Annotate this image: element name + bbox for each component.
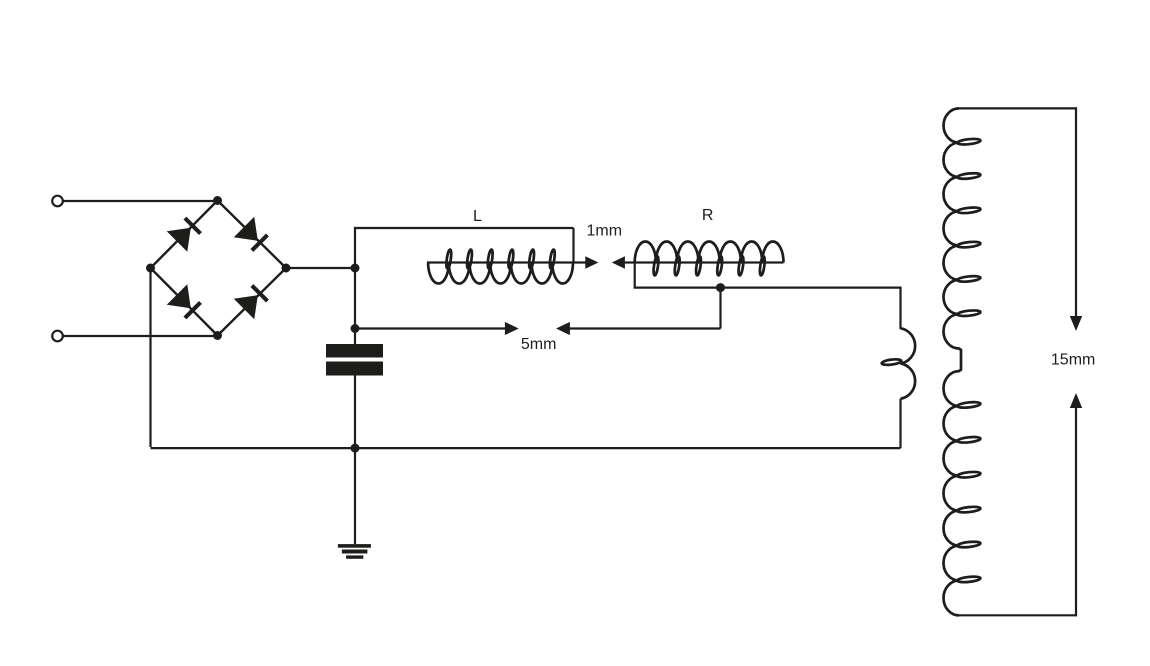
inductor R crossing loops: [653, 256, 766, 276]
wire from J2 to bridge bottom node: [63, 335, 217, 337]
arrow left (5mm gap right side): [556, 322, 570, 335]
wire R lower rail to primary coil: [634, 287, 901, 289]
dimension line down arrow (15mm upper): [1070, 107, 1082, 331]
wire bridge right node to main vertical: [286, 267, 355, 269]
wire secondary bottom rail: [958, 614, 1076, 616]
label 15mm: [1051, 352, 1095, 369]
label R: [702, 207, 714, 224]
arrow right (5mm gap left side): [505, 322, 519, 335]
terminal J1 (upper AC input): [52, 196, 63, 207]
diode D3 (lower-left arm, pointing to bottom node): [167, 284, 205, 322]
wire top rail drop to L coil axis: [572, 228, 574, 263]
svg-text:15mm: 15mm: [1051, 352, 1095, 369]
svg-text:R: R: [702, 207, 714, 224]
terminal J2 (lower AC input): [52, 331, 63, 342]
ground bar 1: [338, 544, 371, 548]
wire bridge left node down to bottom bus: [149, 268, 151, 447]
diode D1 (upper-left arm, pointing to top node): [167, 214, 205, 252]
transformer secondary crossing loops: [957, 138, 981, 583]
svg-text:1mm: 1mm: [587, 223, 623, 240]
wire top rail to L network: [354, 227, 574, 229]
svg-text:5mm: 5mm: [521, 336, 557, 353]
wire primary coil top lead: [899, 287, 901, 330]
wire main vertical upper (rail top to capacitor): [354, 227, 356, 345]
wire bridge diamond (rectifier frame): [151, 201, 287, 336]
label 1mm: [587, 223, 623, 240]
node dot bridge right: [282, 264, 291, 273]
wire primary coil bottom lead: [899, 399, 901, 448]
node dot bridge top: [213, 196, 222, 205]
wire capacitor to bottom bus / ground stub: [354, 376, 356, 545]
arrow right (L coil side of 1mm gap): [585, 256, 598, 269]
node C junction dot on R lower rail: [716, 283, 725, 292]
node dot bridge bottom: [213, 331, 222, 340]
diode D2 (upper-right arm, pointing to right node): [234, 217, 272, 255]
wire bottom bus (ground rail): [151, 447, 901, 449]
transformer secondary coil arcs: [943, 108, 961, 615]
inductor R axis line with arcs: [625, 241, 784, 262]
ground bar 3: [346, 555, 363, 558]
node B junction dot (spark-gap tap on main vertical): [351, 324, 360, 333]
transformer primary coil loop: [881, 358, 901, 365]
inductor L axis line with arcs: [427, 263, 586, 284]
wire R coil left end down-leg: [634, 263, 636, 288]
dimension line up arrow (15mm lower): [1070, 393, 1082, 616]
wire 5mm gap right segment: [569, 327, 721, 329]
label 5mm: [521, 336, 557, 353]
transformer primary coil arcs: [901, 328, 916, 398]
wire secondary top rail: [958, 107, 1076, 109]
wire from J1 to bridge top node: [63, 200, 217, 202]
arrow left (R coil side of 1mm gap): [612, 256, 625, 269]
inductor L crossing loops: [445, 249, 555, 269]
svg-text:L: L: [473, 208, 482, 225]
wire node C down to 5mm gap line: [719, 288, 721, 329]
node A junction dot (bridge output on main vertical): [351, 264, 360, 273]
wire 5mm gap left segment: [355, 327, 506, 329]
node dot bridge left: [146, 264, 155, 273]
node dot bottom bus at ground stub: [351, 444, 360, 453]
capacitor C1 bottom plate: [326, 362, 383, 376]
capacitor C1 top plate: [326, 344, 383, 358]
label L: [473, 208, 482, 225]
diode D4 (lower-right arm, pointing to right node): [234, 282, 272, 320]
ground bar 2: [342, 550, 368, 554]
